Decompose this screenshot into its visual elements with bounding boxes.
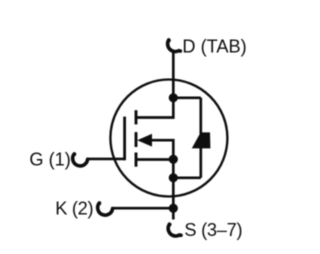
wire: diode branch bottom horizontal (173, 176, 201, 179)
svg-text:S (3–7): S (3–7) (184, 220, 242, 240)
package circle (transistor case outline) (110, 80, 227, 197)
wire: diode branch top horizontal (173, 96, 201, 99)
hook blob K (98, 201, 102, 205)
MOSFET Q1 substrate arrow (points to gate) (137, 134, 152, 147)
MOSFET Q1 channel top segment (drain tick) (135, 110, 138, 124)
wire: body connection to source node (151, 140, 173, 159)
body diode D1 (filled) (192, 132, 211, 148)
hook blob G (73, 152, 77, 156)
wire: source vertical down to S terminal (172, 159, 175, 219)
wire: source lead horizontal (135, 158, 173, 161)
junction dot: body-diode node (169, 173, 178, 182)
terminal hook D (168, 40, 181, 52)
wire: kelvin lead from K terminal (112, 207, 174, 210)
wire: drain vertical lead from D terminal down and left to channel top (135, 53, 173, 118)
MOSFET Q1 gate line (123, 117, 126, 161)
junction dot: kelvin node (169, 204, 178, 213)
wire: diode branch vertical (199, 98, 202, 178)
svg-text:K (2): K (2) (55, 198, 93, 218)
junction dot: source node (169, 155, 178, 164)
terminal hook K (98, 203, 113, 215)
MOSFET Q1 channel bottom segment (source tick) (135, 153, 138, 167)
hook blob D (167, 39, 171, 43)
terminal hook G (73, 154, 88, 166)
terminal hook S (168, 224, 181, 236)
svg-text:G (1): G (1) (29, 150, 70, 170)
wire: gate lead from G terminal (87, 158, 126, 161)
junction dot: drain node (169, 93, 178, 102)
MOSFET Q1 channel middle segment (body tick) (135, 132, 138, 147)
svg-text:D (TAB): D (TAB) (182, 37, 246, 57)
hook blob S (168, 223, 172, 227)
